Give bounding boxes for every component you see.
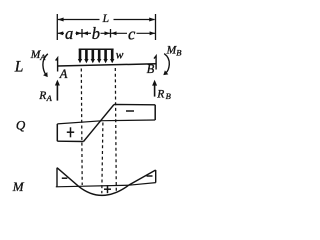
- svg-text:B: B: [147, 62, 155, 76]
- svg-text:A: A: [46, 93, 53, 103]
- svg-text:R: R: [156, 88, 164, 100]
- svg-text:L: L: [102, 13, 109, 25]
- svg-text:A: A: [59, 67, 68, 81]
- svg-text:b: b: [92, 24, 100, 43]
- svg-text:B: B: [176, 47, 181, 57]
- svg-text:a: a: [65, 24, 73, 43]
- svg-text:L: L: [14, 59, 24, 76]
- svg-text:B: B: [166, 91, 171, 101]
- svg-text:M: M: [12, 179, 25, 194]
- svg-text:w: w: [116, 49, 124, 61]
- svg-text:c: c: [128, 24, 136, 43]
- svg-text:Q: Q: [16, 118, 26, 133]
- svg-text:R: R: [38, 90, 46, 102]
